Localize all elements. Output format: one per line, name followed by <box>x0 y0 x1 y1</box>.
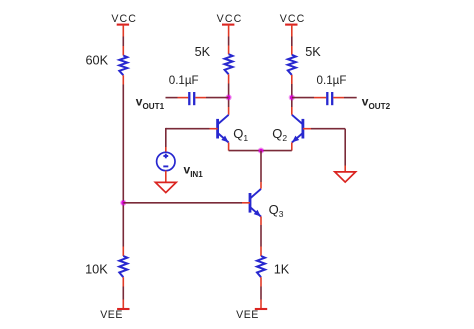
wire Q3 emitter to 1K <box>260 217 262 257</box>
wire middle rail 5K to node A <box>228 74 230 97</box>
ground (source vIN1) <box>155 182 176 192</box>
svg-text:VEE: VEE <box>236 309 259 321</box>
node A junction (R3 / C1 / Q1 collector) <box>226 94 232 100</box>
svg-text:VCC: VCC <box>111 13 137 25</box>
label 0.1uF value (C2) <box>317 74 347 87</box>
svg-text:5K: 5K <box>195 45 211 59</box>
wire Q2 emitter to emitter junction <box>261 143 292 151</box>
label 5K value (right) <box>305 45 321 59</box>
wire source to ground <box>165 171 167 183</box>
wire left rail 10K to VEE <box>122 277 124 309</box>
label 60K value <box>86 54 109 68</box>
svg-text:10K: 10K <box>85 262 108 276</box>
wire left rail VCC to 60K <box>122 25 124 56</box>
transistor Q1 <box>218 115 229 143</box>
wire right rail VCC to 5K <box>291 25 293 55</box>
wire middle rail VCC to 5K <box>228 25 230 55</box>
transistor Q2 <box>292 115 303 143</box>
power symbol VCC (right) <box>280 13 306 25</box>
resistor R2 10K <box>119 256 127 277</box>
ground (Q2 base) <box>335 172 356 182</box>
node B junction (R4 / C2 / Q2 collector) <box>289 94 295 100</box>
svg-text:60K: 60K <box>86 54 109 68</box>
label 5K value (middle) <box>195 45 211 59</box>
label 1K value <box>274 262 290 276</box>
power symbol VCC (middle) <box>217 13 243 25</box>
resistor R5 1K <box>257 256 265 277</box>
capacitor C1 0.1uF <box>189 92 194 105</box>
svg-text:5K: 5K <box>305 45 321 59</box>
power symbol VCC (left) <box>111 13 137 25</box>
label vOUT1 <box>136 95 165 112</box>
capacitor C1 left lead wire <box>166 97 189 99</box>
node emitter junction <box>258 148 264 154</box>
wire Q1 base to source vIN1 <box>166 128 218 152</box>
wire left rail 60K to 10K <box>122 75 124 256</box>
svg-text:0.1µF: 0.1µF <box>317 74 347 87</box>
label Q1 <box>233 126 248 143</box>
svg-text:0.1µF: 0.1µF <box>169 74 199 87</box>
power symbol VEE (left) <box>100 309 129 321</box>
resistor R3 5K <box>225 54 233 74</box>
capacitor C2 0.1uF <box>327 92 332 105</box>
label vOUT2 <box>362 95 391 112</box>
resistor R1 60K <box>119 56 127 76</box>
capacitor C2 right lead wire <box>333 97 356 99</box>
capacitor C1 right lead wire <box>195 97 228 99</box>
label 0.1uF value (C1) <box>169 74 199 87</box>
source V1 vIN1 <box>157 152 175 170</box>
node junction left rail to Q3 base <box>120 200 126 206</box>
power symbol VEE (right) <box>236 309 267 321</box>
capacitor C2 left lead wire <box>292 97 326 99</box>
svg-text:1K: 1K <box>274 262 290 276</box>
wire node A to Q1 collector <box>228 97 230 114</box>
svg-text:VCC: VCC <box>217 13 243 25</box>
transistor Q3 <box>250 189 261 217</box>
wire Q1 emitter to emitter junction <box>229 143 261 151</box>
wire Q2 base to ground <box>303 129 345 172</box>
wire 1K to VEE <box>260 277 262 309</box>
wire right rail 5K to node B <box>291 75 293 98</box>
label 10K value <box>85 262 108 276</box>
wire emitter junction to Q3 collector <box>260 151 262 189</box>
svg-text:VCC: VCC <box>280 13 306 25</box>
label Q2 <box>272 126 287 143</box>
svg-text:VEE: VEE <box>100 309 123 321</box>
wire Q3 base to left rail <box>123 202 250 204</box>
resistor R4 5K <box>288 55 296 75</box>
label Q3 <box>269 202 284 219</box>
label vIN1 <box>184 163 204 179</box>
wire node B to Q2 collector <box>291 98 293 115</box>
